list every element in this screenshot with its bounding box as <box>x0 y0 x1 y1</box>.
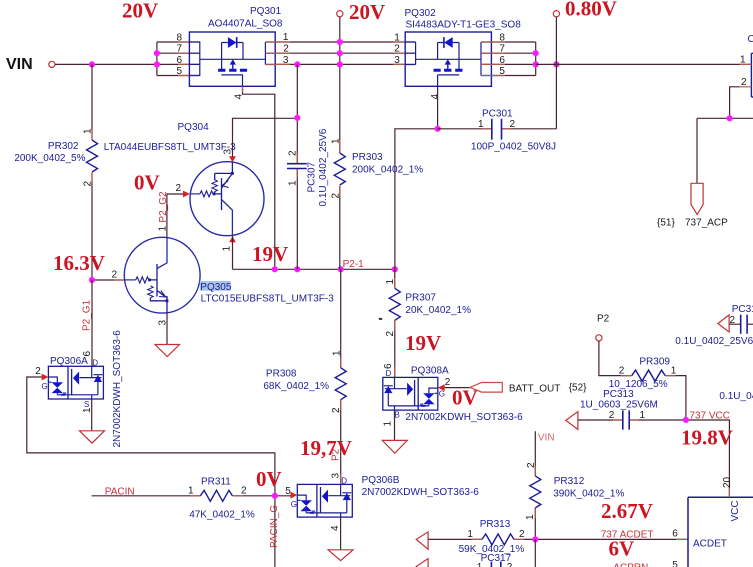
svg-text:3: 3 <box>158 320 169 326</box>
net arrow left ACDET row <box>416 532 428 549</box>
svg-text:VIN: VIN <box>6 56 33 73</box>
svg-text:PR311: PR311 <box>201 477 231 488</box>
IC U301 clipped <box>672 476 753 567</box>
svg-text:C: C <box>748 34 753 45</box>
svg-text:2: 2 <box>330 193 341 199</box>
svg-text:20: 20 <box>722 476 733 488</box>
svg-text:PQ302: PQ302 <box>405 8 437 19</box>
svg-text:5: 5 <box>176 66 182 77</box>
svg-text:2: 2 <box>35 366 41 377</box>
svg-text:19V: 19V <box>405 331 441 355</box>
svg-text:737 VCC: 737 VCC <box>689 411 730 422</box>
wire rows PQ301 to PQ302 <box>265 42 415 64</box>
junction dot PC307 top <box>294 115 300 121</box>
svg-text:19,7V: 19,7V <box>300 436 352 460</box>
wire PQ308A gate to BATT_OUT <box>445 387 470 389</box>
wire PQ302 pin4 down <box>437 86 439 129</box>
svg-text:P2_G2: P2_G2 <box>158 191 169 223</box>
dual-fet PQ308A 2N7002KDWH_SOT363-6 <box>383 363 524 427</box>
svg-text:1U_0603_25V6M: 1U_0603_25V6M <box>580 399 658 410</box>
svg-text:1: 1 <box>188 486 194 497</box>
wire component pin2 to ACP net <box>697 87 753 183</box>
junction dot PQ302 pin4 <box>435 126 441 132</box>
junction dots PQ302 right <box>533 50 560 67</box>
pin arrow PQ304 pin1 <box>229 236 236 242</box>
svg-text:ACDET: ACDET <box>693 539 727 550</box>
capacitor PC307 0.1U_0402_25V6 <box>287 64 329 269</box>
svg-text:19V: 19V <box>252 242 288 266</box>
capacitor PC301 100P_0402_50V8J <box>438 64 557 152</box>
svg-text:47K_0402_1%: 47K_0402_1% <box>189 510 255 521</box>
svg-text:1: 1 <box>640 410 646 421</box>
svg-text:PQ304: PQ304 <box>178 122 210 133</box>
svg-text:G: G <box>291 500 297 509</box>
svg-text:20K_0402_1%: 20K_0402_1% <box>405 305 471 316</box>
svg-text:D: D <box>92 358 98 367</box>
wire 16.3V node to PQ305 pin2 <box>89 270 125 284</box>
wire 16.3V node down to PQ306A pin6 <box>91 280 93 366</box>
svg-text:PC301: PC301 <box>482 109 513 120</box>
svg-text:PR309: PR309 <box>639 357 670 368</box>
svg-text:{52}: {52} <box>569 383 587 394</box>
svg-text:2: 2 <box>730 315 736 326</box>
svg-text:VCC: VCC <box>730 500 741 521</box>
wire PQ308A source to ground <box>394 410 396 440</box>
svg-text:SI4483ADY-T1-GE3_SO8: SI4483ADY-T1-GE3_SO8 <box>406 20 522 31</box>
svg-text:G: G <box>439 390 445 399</box>
svg-text:G: G <box>42 382 48 391</box>
svg-text:LTC015EUBFS8TL_UMT3F-3: LTC015EUBFS8TL_UMT3F-3 <box>201 293 335 304</box>
svg-text:3: 3 <box>394 55 400 66</box>
svg-text:2: 2 <box>526 462 537 468</box>
wire PQ306A source to ground <box>91 399 93 431</box>
svg-text:200K_0402_1%: 200K_0402_1% <box>352 165 423 176</box>
svg-text:PACIN: PACIN <box>105 486 135 497</box>
svg-text:2: 2 <box>176 183 182 194</box>
wire 20V port down to PR303 <box>339 17 341 148</box>
svg-text:19.8V: 19.8V <box>681 425 733 449</box>
net tag 737_ACP <box>657 183 728 228</box>
resistor PR313 59K_0402_1% <box>428 519 688 555</box>
svg-text:PR302: PR302 <box>48 141 79 152</box>
pin arrow PQ306A gate <box>42 374 49 381</box>
svg-text:PQ308A: PQ308A <box>411 366 449 377</box>
svg-text:16.3V: 16.3V <box>53 251 105 275</box>
svg-text:1: 1 <box>671 366 677 377</box>
mosfet PQ301 AO4407AL_SO8 <box>176 6 289 100</box>
svg-text:ACPRN: ACPRN <box>613 563 648 567</box>
svg-text:2: 2 <box>112 270 118 281</box>
junction dot ACDET <box>532 536 538 542</box>
pin arrow PQ304 pin3 <box>229 156 236 162</box>
svg-text:20V: 20V <box>349 0 385 24</box>
junction dots VIN column <box>89 50 160 67</box>
svg-text:PR312: PR312 <box>554 476 585 487</box>
svg-text:PR307: PR307 <box>405 293 436 304</box>
ground below PQ306A <box>80 431 105 443</box>
resistor PR309 10_1206_5% <box>599 341 686 420</box>
svg-text:68K_0402_1%: 68K_0402_1% <box>263 381 329 392</box>
svg-text:1: 1 <box>383 421 394 427</box>
wire PQ306B source to ground <box>340 517 342 550</box>
junction dot ACP <box>727 115 733 121</box>
svg-text:1: 1 <box>222 246 233 252</box>
svg-text:LTA044EUBFS8TL_UMT3F-3: LTA044EUBFS8TL_UMT3F-3 <box>104 142 236 153</box>
transistor PQ304 LTA044EUBFS8TL_UMT3F-3 <box>104 122 264 236</box>
svg-text:4: 4 <box>430 94 441 100</box>
port 20V center <box>337 0 385 24</box>
svg-text:2N7002KDWH_SOT363-6: 2N7002KDWH_SOT363-6 <box>112 330 123 448</box>
svg-text:2: 2 <box>288 150 299 156</box>
resistor PR308 68K_0402_1% <box>263 269 346 484</box>
svg-text:6: 6 <box>176 55 182 66</box>
svg-text:1: 1 <box>467 529 473 540</box>
wire PQ305 pin3 to ground <box>158 313 169 344</box>
svg-text:0V: 0V <box>134 171 160 195</box>
port P2 <box>596 314 610 342</box>
svg-text:D: D <box>386 369 392 378</box>
svg-text:PQ305: PQ305 <box>200 282 232 293</box>
svg-text:2: 2 <box>519 529 525 540</box>
wire PQ306A gate to PACIN node <box>27 377 275 496</box>
net arrow left PC310 <box>718 315 729 332</box>
svg-text:P2: P2 <box>597 314 610 325</box>
resistor PR302 200K_0402_5% <box>14 64 97 280</box>
svg-text:2: 2 <box>609 410 615 421</box>
svg-text:2: 2 <box>83 181 94 187</box>
svg-text:1: 1 <box>385 279 396 285</box>
net arrow left PC313 <box>566 412 578 430</box>
wire VIN to PQ301 pins <box>55 42 200 76</box>
svg-text:0V: 0V <box>256 467 282 491</box>
svg-text:{51}: {51} <box>657 218 675 229</box>
capacitor PC310 0.1U_0402_25V6 <box>675 304 753 347</box>
svg-text:2: 2 <box>445 377 451 388</box>
port 0.80V <box>553 0 617 64</box>
wire 19V rail P2-1 <box>233 259 395 270</box>
junction dots 19V rail <box>272 266 398 272</box>
pin arrow PQ304 pin2 <box>183 191 190 198</box>
svg-text:PC307: PC307 <box>307 161 318 192</box>
svg-text:8: 8 <box>176 33 182 44</box>
svg-text:737_ACP: 737_ACP <box>685 218 728 229</box>
pin arrow PQ308A gate <box>438 384 445 391</box>
wire PQ305 pin1 to PQ304 pin2 <box>158 183 184 237</box>
svg-text:1: 1 <box>331 350 342 356</box>
svg-text:3: 3 <box>331 473 342 479</box>
svg-text:6: 6 <box>672 529 678 540</box>
capacitor PC317 <box>477 539 536 567</box>
net tag BATT_OUT <box>470 383 587 395</box>
svg-text:PACIN_G: PACIN_G <box>269 505 280 548</box>
svg-text:6V: 6V <box>609 536 635 560</box>
wire 0.80V node to right component <box>536 63 752 65</box>
svg-text:P2_G1: P2_G1 <box>82 299 93 331</box>
svg-text:AO4407AL_SO8: AO4407AL_SO8 <box>208 19 283 30</box>
svg-text:1: 1 <box>158 226 169 232</box>
ground below PQ308A <box>382 440 407 453</box>
svg-text:0.1U_0402_25V6: 0.1U_0402_25V6 <box>318 128 329 206</box>
svg-text:200K_0402_5%: 200K_0402_5% <box>14 153 85 164</box>
svg-text:1: 1 <box>394 33 400 44</box>
svg-text:3: 3 <box>222 149 233 155</box>
dual-fet PQ306B 2N7002KDWH_SOT363-6 <box>285 473 479 532</box>
svg-text:2.67V: 2.67V <box>601 499 653 523</box>
net arrow left PC317 row clipped <box>416 559 428 567</box>
resistor PR307 20K_0402_1% <box>379 269 471 377</box>
svg-text:1: 1 <box>330 138 341 144</box>
svg-text:2N7002KDWH_SOT363-6: 2N7002KDWH_SOT363-6 <box>362 487 480 498</box>
transistor PQ305 LTC015EUBFS8TL_UMT3F-3 <box>124 237 334 313</box>
svg-text:PC31: PC31 <box>732 304 753 315</box>
resistor PR303 200K_0402_1% <box>330 138 423 269</box>
svg-text:1: 1 <box>478 119 484 130</box>
ground below PQ306B <box>328 550 353 561</box>
wire PC301 node to 19V rail <box>395 129 438 269</box>
svg-text:PR303: PR303 <box>352 152 383 163</box>
svg-text:PR313: PR313 <box>480 519 511 530</box>
svg-text:0.1U_04: 0.1U_04 <box>719 391 753 402</box>
junction dot PACIN <box>272 493 278 499</box>
svg-text:BATT_OUT: BATT_OUT <box>509 384 560 395</box>
svg-text:B: B <box>395 411 400 420</box>
svg-text:1: 1 <box>288 180 299 186</box>
svg-text:P2-1: P2-1 <box>343 259 365 270</box>
svg-text:2: 2 <box>331 407 342 413</box>
resistor PR311 47K_0402_1% <box>188 477 255 521</box>
svg-text:1: 1 <box>283 32 289 43</box>
wire PQ301 pin4 to 19V rail <box>243 86 275 269</box>
svg-text:2: 2 <box>510 119 516 130</box>
svg-text:D: D <box>341 477 347 486</box>
junction dot 737 VCC <box>683 417 689 423</box>
svg-text:2: 2 <box>385 331 396 337</box>
svg-text:VIN: VIN <box>538 432 555 443</box>
component edge right (clipped box) <box>740 34 753 97</box>
svg-text:2: 2 <box>619 366 625 377</box>
svg-text:0.80V: 0.80V <box>565 0 617 21</box>
ground below PQ305 <box>155 345 180 357</box>
svg-text:20V: 20V <box>122 0 158 23</box>
wire PQ304 pin3 up to PC307 node <box>222 118 297 157</box>
wire PQ302 right pins connector <box>481 42 536 76</box>
svg-text:0.1U_0402_25V6: 0.1U_0402_25V6 <box>675 336 753 347</box>
svg-text:1: 1 <box>83 128 94 134</box>
svg-text:7: 7 <box>176 44 182 55</box>
svg-text:PR308: PR308 <box>266 369 297 380</box>
junction dots 20V column <box>294 39 343 68</box>
dual-fet PQ306A 2N7002KDWH_SOT363-6 <box>35 330 123 448</box>
mosfet PQ302 SI4483ADY-T1-GE3_SO8 <box>394 8 521 100</box>
svg-text:6: 6 <box>82 351 93 357</box>
svg-text:5: 5 <box>672 560 678 567</box>
svg-text:PQ306B: PQ306B <box>362 475 400 486</box>
svg-text:1: 1 <box>525 514 536 520</box>
svg-text:1: 1 <box>477 562 483 567</box>
svg-text:2N7002KDWH_SOT363-6: 2N7002KDWH_SOT363-6 <box>405 412 523 423</box>
svg-text:PQ301: PQ301 <box>250 6 282 17</box>
svg-text:2: 2 <box>241 486 247 497</box>
svg-text:2: 2 <box>507 562 513 567</box>
port VIN <box>6 56 55 73</box>
resistor PR312 390K_0402_1% <box>525 431 624 539</box>
svg-text:1: 1 <box>740 55 746 66</box>
svg-text:4: 4 <box>330 525 341 531</box>
wire PQ304 pin1 down to 19V rail <box>222 236 233 270</box>
wire PACIN row <box>92 496 291 567</box>
capacitor PC313 1U_0603_25V6M <box>578 389 730 497</box>
svg-text:2: 2 <box>741 77 747 88</box>
svg-text:0V: 0V <box>452 386 478 410</box>
svg-text:100P_0402_50V8J: 100P_0402_50V8J <box>471 142 556 153</box>
pin arrow PQ306B gate <box>291 492 298 499</box>
svg-text:2: 2 <box>394 44 400 55</box>
